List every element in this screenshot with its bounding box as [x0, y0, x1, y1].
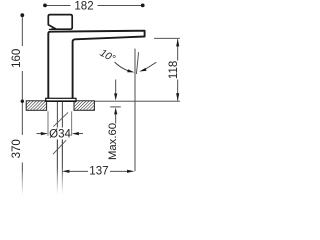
supply pipe right line upper: [61, 102, 63, 128]
dimension 137 line right segment: [110, 170, 128, 172]
svg-text:370: 370: [11, 139, 23, 158]
dimension 118 upper arrowhead: [176, 39, 179, 47]
dimension Max.60 reference tick: [110, 106, 121, 108]
faucet body and spout outline: [48, 31, 144, 99]
dimension 118 line lower segment: [177, 80, 179, 101]
svg-text:Ø34: Ø34: [49, 128, 71, 140]
svg-text:Max.60: Max.60: [107, 123, 119, 160]
rotation arc arrowhead: [139, 68, 146, 72]
dimension 118 lower arrowhead: [176, 93, 179, 101]
dimension 160 top dot terminator: [20, 13, 24, 17]
diameter 34 left arrow tail: [37, 133, 43, 135]
countertop left slab with hatch: [26, 101, 46, 111]
diameter 34 right arrowhead: [72, 132, 79, 135]
water stream vertical reference line: [134, 49, 136, 172]
dimension Max.60 up arrowhead: [114, 107, 117, 114]
svg-text:160: 160: [11, 49, 23, 68]
dimension 137 right arrowhead: [127, 170, 135, 173]
spout outlet extension line: [154, 37, 180, 39]
dimension 182 line left segment: [45, 4, 71, 6]
dimension 118 line upper segment: [177, 39, 179, 60]
diameter 34 right extension line: [71, 111, 73, 136]
diameter 34 left extension line: [47, 111, 49, 136]
dimension 182 line right segment: [98, 4, 143, 6]
dimension 160/370 vertical line upper segment: [21, 15, 23, 46]
10 degree leader curve: [115, 62, 131, 72]
rotation arc curve: [145, 62, 156, 69]
countertop surface extension line: [94, 100, 180, 102]
dimension 160/370 middle dot terminator: [21, 100, 24, 103]
pipe break slash upper: [53, 112, 68, 126]
dimension Max.60 lower line: [115, 114, 117, 124]
dimension 137 left arrowhead: [62, 170, 70, 173]
svg-text:118: 118: [168, 61, 180, 79]
base flange: [46, 98, 76, 101]
tilted stream line 10 degree position: [136, 52, 138, 74]
handle chamfer wedge fill: [52, 28, 58, 30]
10 degree leader arrowhead: [127, 69, 134, 72]
supply pipe right line lower with fade: [61, 140, 63, 197]
dimension 182 right dot terminator: [141, 4, 145, 8]
base flange bottom edge: [45, 100, 76, 102]
diameter 34 left arrowhead: [41, 132, 48, 135]
dimension 182 left dot terminator: [43, 4, 47, 8]
svg-text:182: 182: [74, 1, 93, 13]
dimension 370 fading tail: [21, 171, 23, 197]
dimension Max.60 down arrowhead: [114, 93, 117, 100]
dimension 160/370 vertical line middle segment: [21, 71, 23, 135]
dimension 160/370 vertical line lower segment: [21, 163, 23, 172]
pipe break slash lower: [53, 140, 66, 154]
svg-text:137: 137: [89, 165, 108, 177]
countertop right slab with hatch: [74, 101, 94, 111]
supply pipe left line upper: [56, 102, 58, 128]
supply pipe left line lower with fade: [56, 140, 58, 194]
faucet handle: [48, 15, 72, 30]
dimension Max.60 upper line: [115, 80, 117, 95]
dimension 137 line left segment: [69, 170, 89, 172]
handle cap bottom edge: [49, 28, 57, 30]
diameter 34 right arrow tail: [77, 133, 83, 135]
